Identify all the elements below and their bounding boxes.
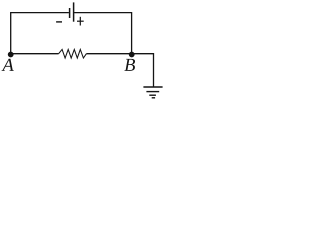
wire: from battery positive plate across top and down to node B (74, 13, 132, 55)
battery cell: long positive plate (73, 2, 75, 21)
node B junction dot (129, 52, 135, 58)
wire: resistor right lead through node B then right and down to ground (86, 54, 153, 87)
ground symbol (143, 87, 162, 98)
node B label (124, 59, 135, 71)
node A junction dot (8, 52, 14, 58)
battery cell: short negative plate (69, 8, 71, 18)
wire: from node A up the left side and across top to battery negative plate (11, 13, 69, 55)
node A label (1, 59, 13, 71)
battery polarity label plus (77, 17, 84, 26)
wire: node A to resistor left lead (11, 53, 59, 55)
battery polarity label minus (56, 21, 62, 23)
resistor R between node A and node B (59, 49, 87, 58)
